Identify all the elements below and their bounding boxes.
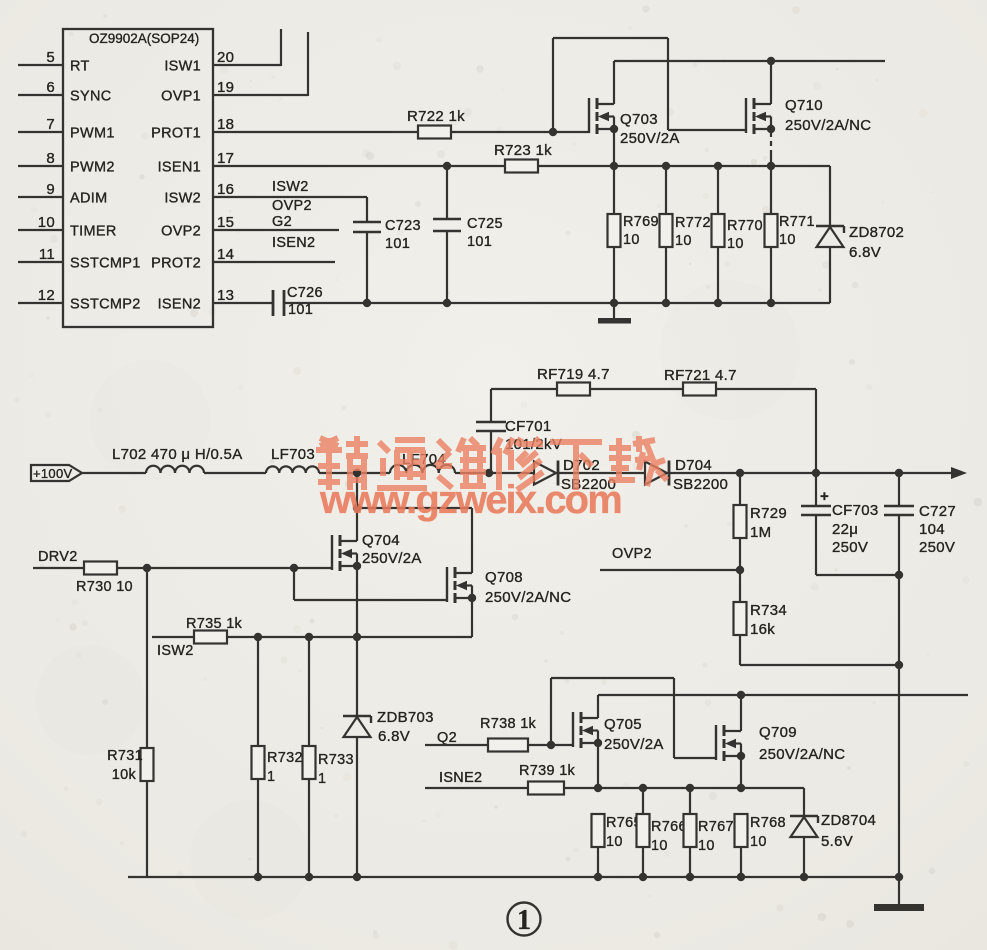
- node ZDB703 top: [353, 633, 361, 641]
- wire top drain bus: [614, 60, 885, 62]
- zener diode ZDB703 6.8V: [356, 637, 358, 716]
- svg-text:SYNC: SYNC: [70, 89, 112, 105]
- svg-text:5.6V: 5.6V: [821, 833, 853, 850]
- node Q708 gate branch: [290, 564, 298, 572]
- wire +100V to L702: [82, 472, 146, 474]
- transistor Q704 250V/2A: [356, 473, 358, 541]
- node Q705 gate junction: [547, 741, 555, 749]
- svg-text:R731: R731: [107, 748, 143, 764]
- svg-text:Q709: Q709: [759, 724, 797, 741]
- svg-text:ISNE2: ISNE2: [439, 770, 482, 786]
- wire ISNE2 bus: [564, 787, 804, 789]
- svg-text:19: 19: [217, 79, 234, 96]
- node switch Q704 tap: [353, 469, 361, 477]
- svg-text:15: 15: [217, 214, 234, 231]
- svg-text:R772: R772: [675, 215, 711, 231]
- svg-text:Q2: Q2: [437, 730, 457, 746]
- wire pin15 OVP2 stub: [213, 229, 339, 231]
- node Q710 drain: [767, 57, 775, 65]
- node R770 top: [714, 162, 722, 170]
- pin 10 TIMER lead: [18, 229, 63, 231]
- wire pin20 ISW1 up stub: [213, 64, 281, 66]
- svg-text:Q703: Q703: [620, 111, 658, 128]
- transistor Q708 250V/2A/NC: [446, 567, 448, 602]
- svg-text:R730 10: R730 10: [76, 579, 133, 595]
- resistor R722 1k: [418, 126, 451, 139]
- wire pin18 PROT1 to R722: [213, 131, 418, 133]
- svg-text:6.8V: 6.8V: [378, 728, 410, 745]
- svg-text:RT: RT: [70, 59, 90, 75]
- inductor LF703: [266, 466, 319, 473]
- svg-text:16: 16: [217, 181, 234, 198]
- resistor R766 10: [642, 788, 644, 814]
- svg-text:OVP2: OVP2: [161, 224, 201, 240]
- svg-text:ZDB703: ZDB703: [377, 709, 434, 726]
- svg-text:CF703: CF703: [832, 502, 879, 519]
- net +100V input tag: [31, 465, 82, 481]
- resistor R765 10: [592, 814, 605, 847]
- pin 7 PWM1 lead: [18, 131, 63, 133]
- svg-text:ADIM: ADIM: [70, 191, 107, 207]
- pin 8 PWM2 lead: [18, 165, 63, 167]
- node R772 bottom: [662, 299, 670, 307]
- resistor R723 1k: [505, 160, 538, 173]
- node R734 to C727 leg: [895, 661, 903, 669]
- op-amp controller IC U701 OZ9902A body: [63, 29, 213, 327]
- svg-text:10: 10: [623, 232, 640, 248]
- wire LF704 to CF701 node: [455, 472, 534, 474]
- node CF703 top: [812, 469, 820, 477]
- wire ISNE2 to ZD8704: [803, 788, 805, 816]
- svg-text:R733: R733: [318, 752, 354, 768]
- resistor R767 10: [689, 788, 691, 814]
- node ZD8704 bottom: [800, 873, 808, 881]
- svg-text:RF719 4.7: RF719 4.7: [537, 366, 610, 383]
- svg-text:18: 18: [217, 116, 234, 133]
- wire DRV2 to Q704 gate: [118, 567, 332, 569]
- svg-text:7: 7: [46, 116, 55, 133]
- node C725 top: [443, 162, 451, 170]
- svg-text:PROT1: PROT1: [151, 126, 201, 142]
- wire D702 to D704: [558, 472, 645, 474]
- wire ISEN1 to ZD8702: [829, 166, 831, 226]
- svg-text:PWM2: PWM2: [70, 160, 115, 176]
- wire L702 to LF703: [204, 472, 266, 474]
- inductor LF704: [390, 465, 455, 473]
- svg-text:6: 6: [46, 79, 55, 96]
- svg-text:1M: 1M: [750, 524, 771, 541]
- node R769 bottom: [610, 299, 618, 307]
- resistor R731 10k: [146, 568, 148, 748]
- wire to Q708 gate: [293, 568, 295, 600]
- node R766 bottom: [639, 873, 647, 881]
- svg-text:R723 1k: R723 1k: [494, 142, 552, 159]
- resistor R768 10: [735, 814, 748, 847]
- wire LF703 to node: [319, 472, 390, 474]
- svg-text:R739 1k: R739 1k: [519, 763, 576, 779]
- node CF703 bottom: [895, 571, 903, 579]
- wire pin13 ISEN2 to C726: [213, 302, 273, 304]
- svg-text:10: 10: [651, 838, 668, 854]
- node R769 top: [610, 162, 618, 170]
- page number circled 1: [508, 903, 541, 936]
- svg-text:R722 1k: R722 1k: [407, 108, 465, 125]
- resistor R729 1M: [739, 473, 741, 505]
- svg-text:PWM1: PWM1: [70, 126, 115, 142]
- svg-text:R767: R767: [698, 819, 734, 835]
- svg-text:Q704: Q704: [362, 532, 400, 549]
- svg-text:C725: C725: [467, 216, 503, 232]
- wire pin14 PROT2 stub: [213, 261, 335, 263]
- svg-text:5: 5: [46, 49, 55, 66]
- svg-text:250V/2A: 250V/2A: [604, 736, 664, 753]
- capacitor CF701 101/2kV: [490, 389, 492, 422]
- diode D702 SB2200: [534, 462, 556, 485]
- capacitor CF703 22u 250V: [815, 473, 817, 506]
- svg-text:14: 14: [217, 246, 234, 263]
- svg-text:C723: C723: [385, 218, 421, 234]
- transistor Q703 250V/2A: [588, 98, 590, 133]
- wire bottom ground bus: [128, 876, 899, 878]
- svg-text:RF721 4.7: RF721 4.7: [664, 367, 737, 384]
- wire gate loop to Q709: [550, 678, 552, 745]
- zener diode ZD8704 5.6V: [790, 815, 818, 818]
- svg-text:8: 8: [46, 150, 55, 167]
- svg-text:Q708: Q708: [485, 569, 523, 586]
- svg-text:R770: R770: [727, 218, 763, 234]
- node R731 branch: [143, 564, 151, 572]
- node R770 bottom: [714, 299, 722, 307]
- svg-text:D704: D704: [675, 457, 712, 474]
- svg-text:C726: C726: [287, 285, 323, 301]
- svg-text:20: 20: [217, 49, 234, 66]
- node R767 top: [686, 784, 694, 792]
- resistor R738 1k: [488, 739, 528, 752]
- svg-text:R766: R766: [651, 819, 687, 835]
- svg-text:10: 10: [698, 838, 715, 854]
- capacitor C725 101: [446, 166, 448, 219]
- node CF701 bottom: [485, 469, 493, 477]
- svg-text:16k: 16k: [750, 621, 775, 638]
- node ZDB703 bottom: [353, 873, 361, 881]
- capacitor C723 101: [353, 221, 381, 224]
- svg-text:SSTCMP2: SSTCMP2: [70, 297, 141, 313]
- svg-text:12: 12: [38, 287, 55, 304]
- svg-text:10: 10: [38, 214, 55, 231]
- svg-text:R768: R768: [750, 815, 786, 831]
- wire gate loop to Q710: [552, 38, 554, 132]
- svg-text:250V/2A/NC: 250V/2A/NC: [759, 746, 845, 763]
- wire output line with arrow: [669, 472, 953, 474]
- svg-text:1: 1: [318, 771, 326, 787]
- svg-text:10: 10: [606, 834, 623, 850]
- svg-text:ZD8702: ZD8702: [849, 224, 904, 241]
- node R771 top: [767, 162, 775, 170]
- svg-text:6.8V: 6.8V: [849, 244, 881, 261]
- diode D704 SB2200: [645, 462, 667, 485]
- svg-text:11: 11: [39, 246, 55, 263]
- wire RF721 down to output: [716, 388, 816, 390]
- resistor R739 1k: [528, 782, 564, 795]
- node R768 bottom: [737, 873, 745, 881]
- transistor Q710 250V/2A/NC: [745, 98, 747, 133]
- resistor R732 1: [257, 637, 259, 746]
- wire ISW2 bus: [228, 636, 472, 638]
- node R732 top: [254, 633, 262, 641]
- node Q708 branch: [353, 504, 361, 512]
- wire RF719 to RF721: [590, 388, 683, 390]
- wire C726 to bottom bus: [284, 302, 830, 304]
- svg-text:ISW2: ISW2: [164, 191, 201, 207]
- svg-text:10: 10: [750, 834, 767, 850]
- svg-text:250V/2A/NC: 250V/2A/NC: [785, 117, 871, 134]
- svg-text:R734: R734: [750, 602, 787, 619]
- svg-text:R729: R729: [750, 505, 787, 522]
- pin 12 SSTCMP2 lead: [18, 302, 63, 304]
- svg-text:13: 13: [217, 287, 234, 304]
- resistor R730 10: [84, 562, 117, 575]
- svg-text:R738 1k: R738 1k: [480, 716, 537, 732]
- svg-text:10: 10: [675, 233, 692, 249]
- node R765 bottom: [594, 873, 602, 881]
- pin 6 SYNC lead: [18, 94, 63, 96]
- svg-text:10: 10: [727, 236, 744, 252]
- transistor Q709 250V/2A/NC: [715, 725, 717, 760]
- zener diode ZD8702 6.8V: [816, 225, 844, 228]
- svg-text:250V/2A: 250V/2A: [620, 130, 680, 147]
- svg-text:22μ: 22μ: [832, 521, 858, 538]
- pin 9 ADIM lead: [18, 196, 63, 198]
- svg-text:ISW1: ISW1: [164, 59, 201, 75]
- node R733 bottom: [305, 873, 313, 881]
- wire Q704 drain branch to Q708 drain: [357, 507, 472, 509]
- svg-text:ISEN2: ISEN2: [272, 235, 315, 251]
- node R771 bottom: [767, 299, 775, 307]
- wire pin17 ISEN1 to R723: [213, 165, 505, 167]
- pin 5 RT lead: [18, 64, 63, 66]
- node R766 top: [639, 784, 647, 792]
- svg-text:R732: R732: [267, 750, 303, 766]
- svg-text:101: 101: [288, 302, 313, 318]
- pin 11 SSTCMP1 lead: [18, 261, 63, 263]
- resistor R772 10: [665, 166, 667, 214]
- node R765 top: [594, 784, 602, 792]
- svg-text:1: 1: [517, 905, 531, 936]
- svg-text:ISEN2: ISEN2: [158, 297, 201, 313]
- node PROT1 gate junction: [549, 128, 557, 136]
- svg-text:C727: C727: [919, 503, 956, 520]
- resistor R770 10: [717, 166, 719, 214]
- transistor Q705 250V/2A: [572, 712, 574, 747]
- wire CF701 to RF719: [491, 388, 557, 390]
- node R772 top: [662, 162, 670, 170]
- svg-text:L702 470 μ H/0.5A: L702 470 μ H/0.5A: [112, 446, 243, 463]
- ground top section: [613, 303, 615, 319]
- svg-text:SB2200: SB2200: [673, 476, 728, 493]
- node ground corner: [895, 873, 903, 881]
- svg-text:250V: 250V: [832, 539, 868, 556]
- svg-text:101: 101: [467, 234, 492, 250]
- resistor R735 1k: [194, 631, 227, 644]
- svg-text:TIMER: TIMER: [70, 224, 117, 240]
- svg-text:PROT2: PROT2: [151, 256, 201, 272]
- svg-text:ISW2: ISW2: [272, 179, 309, 195]
- svg-text:17: 17: [217, 150, 234, 167]
- svg-text:ISW2: ISW2: [157, 643, 194, 659]
- node R729 top: [736, 469, 744, 477]
- svg-text:SSTCMP1: SSTCMP1: [70, 256, 141, 272]
- svg-text:10: 10: [779, 232, 796, 248]
- svg-text:ZD8704: ZD8704: [821, 812, 876, 829]
- svg-text:250V/2A: 250V/2A: [362, 550, 422, 567]
- wire Q710 source NC dashed: [770, 132, 772, 153]
- watermark chinese characters: [316, 436, 667, 490]
- node R732 bottom: [254, 873, 262, 881]
- resistor RF719 4.7: [557, 383, 590, 396]
- wire Q705 drain line: [598, 694, 968, 696]
- wire ZD8702 anode to bus: [829, 247, 831, 303]
- svg-text:10k: 10k: [112, 767, 137, 783]
- resistor R769 10: [613, 166, 615, 214]
- svg-text:OVP1: OVP1: [161, 89, 201, 105]
- svg-text:OVP2: OVP2: [612, 546, 652, 562]
- node Q709 drain: [737, 691, 745, 699]
- svg-text:+100V: +100V: [33, 466, 72, 481]
- svg-text:R771: R771: [779, 214, 815, 230]
- wire R722 to Q703 gate: [451, 131, 590, 133]
- node C727 top: [895, 469, 903, 477]
- svg-text:OVP2: OVP2: [272, 198, 312, 214]
- svg-text:LF703: LF703: [271, 446, 315, 463]
- svg-text:DRV2: DRV2: [38, 549, 78, 565]
- node R733 top: [305, 633, 313, 641]
- svg-text:Q710: Q710: [785, 97, 823, 114]
- svg-text:250V: 250V: [919, 539, 955, 556]
- svg-text:1: 1: [267, 769, 275, 785]
- svg-text:R735 1k: R735 1k: [186, 616, 243, 632]
- svg-text:ISEN1: ISEN1: [158, 160, 201, 176]
- svg-text:250V/2A/NC: 250V/2A/NC: [485, 589, 571, 606]
- svg-text:104: 104: [919, 521, 945, 538]
- svg-text:G2: G2: [272, 214, 292, 230]
- resistor R734 16k: [734, 602, 747, 635]
- svg-text:+: +: [820, 488, 829, 505]
- node R767 bottom: [686, 873, 694, 881]
- node C723 bottom: [363, 299, 371, 307]
- node R768 top: [737, 784, 745, 792]
- wire pin16 ISW2 to C723: [213, 196, 367, 198]
- node C725 bottom: [443, 299, 451, 307]
- svg-text:CF701: CF701: [505, 418, 552, 435]
- resistor R771 10: [770, 166, 772, 214]
- wire ISEN1 bus right: [538, 165, 830, 167]
- resistor RF721 4.7: [683, 383, 716, 396]
- inductor L702 470uH/0.5A: [146, 466, 204, 473]
- svg-text:9: 9: [46, 181, 55, 198]
- node OVP2 divider: [736, 566, 744, 574]
- wire R738 to Q705 gate: [528, 744, 573, 746]
- resistor R733 1: [308, 637, 310, 746]
- wire pin19 OVP1 up stub: [213, 94, 308, 96]
- svg-text:OZ9902A(SOP24): OZ9902A(SOP24): [89, 31, 199, 46]
- svg-text:R769: R769: [623, 214, 659, 230]
- capacitor C726 101: [272, 290, 275, 316]
- svg-text:www.gzweix.com: www.gzweix.com: [319, 478, 621, 522]
- svg-text:101: 101: [385, 236, 410, 252]
- svg-text:Q705: Q705: [604, 716, 642, 733]
- ground bottom section: [898, 877, 900, 905]
- capacitor C727 104 250V: [898, 473, 900, 506]
